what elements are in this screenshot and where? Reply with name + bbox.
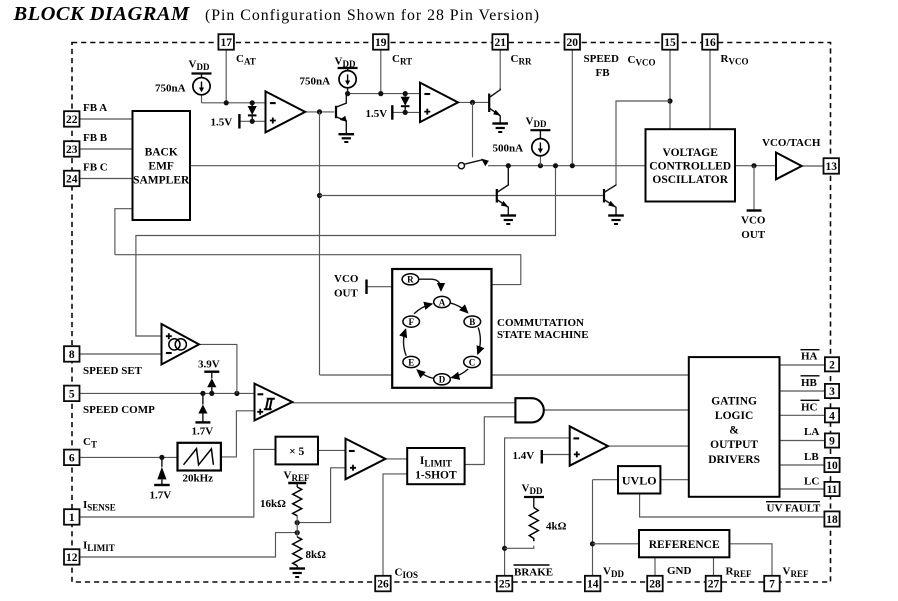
wire: gating logic to pin 9 LA [780,440,826,442]
wire: gating logic to pin 10 LB [780,464,826,466]
label COMMUTATION STATE MACHINE [497,317,589,341]
svg-text:FB B: FB B [83,132,108,144]
svg-text:28: 28 [649,579,661,591]
transistor Q1 emitter follower [336,94,347,133]
node: comparator 2 output junction [470,100,475,105]
node: Q3 collector junction on main line [506,163,511,168]
node: 3.9V clamp junction [209,391,214,396]
pin 28 [647,576,663,592]
svg-text:20kHz: 20kHz [183,473,214,485]
wire: pin 28 GND to reference [654,557,656,576]
pin 19 [373,34,389,50]
svg-text:OUTPUT: OUTPUT [710,439,758,451]
current source 750nA number 1 [155,78,210,95]
svg-text:FB: FB [596,67,611,79]
pin 10 [824,458,839,472]
IC boundary dashed border [72,43,831,583]
svg-text:18: 18 [826,514,838,526]
state A [434,296,451,307]
node: Q1 collector and 750nA junction [345,91,350,96]
transistor Q3 discharge [497,166,509,215]
wire: bus2 sampler to commutation state machine reset [115,255,521,285]
svg-text:14: 14 [587,579,599,591]
pin 9 [825,433,839,447]
wire: gating logic to pin 4 HC [780,414,826,416]
svg-text:C: C [469,357,476,367]
wire: limit comparator output to one-shot [385,458,407,460]
label BRAKE with overline [514,565,554,579]
VDD symbol for 750nA source 2 [335,56,358,71]
block: commutation state machine box [392,269,491,388]
3.9V clamp diode [198,359,220,394]
pin 17 [218,34,234,50]
pin 11 [824,482,839,496]
svg-text:16kΩ: 16kΩ [260,498,286,510]
VCO OUT terminal bar [747,209,762,211]
current source 500nA [493,139,550,156]
node: CAT junction [224,100,229,105]
label HB with overline [801,376,820,389]
svg-text:R: R [407,275,414,285]
pin 15 [662,34,678,50]
hysteresis comparator [255,384,293,421]
VDD symbol for 500nA source [526,116,551,139]
node: 500nA source junction on main line [538,163,543,168]
VREF symbol above divider [284,470,310,488]
node: CVCO junction [667,98,672,103]
label SPEED FB [584,53,620,79]
svg-text:LB: LB [804,451,819,463]
svg-text:22: 22 [66,114,78,126]
wire: VCO OUT stub [753,166,755,210]
wire: pin 17 to CAT node [225,50,227,103]
arrow B to C [478,328,481,354]
wire: CVCO node to discharge transistor Q4 collector [616,101,670,185]
wire: 1.4V source to brake comparator plus [543,454,570,456]
svg-text:19: 19 [375,37,387,49]
svg-text:HC: HC [801,401,818,413]
brake comparator [570,426,608,465]
wire: pin 8 SPEED SET to speed amp minus input [80,353,162,355]
svg-text:BLOCK DIAGRAM: BLOCK DIAGRAM [13,3,190,25]
block: 20kHz sawtooth oscillator [178,443,221,485]
arrow D to E [417,370,434,378]
svg-text:1.4V: 1.4V [513,450,535,462]
label VCO OUT at buffer [741,215,766,242]
svg-text:24: 24 [66,174,78,186]
block: BACK EMF SAMPLER [133,111,191,220]
svg-text:11: 11 [827,484,838,496]
svg-text:27: 27 [708,579,720,591]
wire: pin 22 FB A to sampler [80,118,133,120]
svg-text:D: D [439,375,446,385]
arrow A to B [450,303,468,313]
svg-text:7: 7 [769,579,775,591]
state C [464,356,481,367]
wire: pin 1 ISENSE to x5 amplifier [79,449,275,517]
svg-text:LOGIC: LOGIC [715,410,753,422]
wire: pin 14 VDD riser [592,480,594,576]
wire: main line after switch to VCO [488,165,646,167]
resistor 8k [293,537,326,568]
arrow E to F [404,330,407,356]
wire: UVLO to UV FAULT pin 18 [640,494,825,518]
wire: sampler output main line to switch [190,165,458,167]
svg-text:FB A: FB A [83,102,107,114]
svg-text:1.7V: 1.7V [150,490,172,502]
sample switch [458,159,489,169]
svg-text:FB C: FB C [83,162,108,174]
state D [434,374,451,385]
svg-text:1: 1 [69,512,75,524]
pin 6 [64,450,80,466]
svg-text:F: F [408,317,414,327]
wire: pin 27 RREF to reference [713,557,715,576]
speed amp OTA [162,324,200,365]
transistor Q4 discharge [604,185,616,215]
node: divider top tap junction [295,520,300,525]
wire: divider middle segment [296,515,298,537]
VDD symbol for 750nA source 1 [189,59,212,78]
svg-text:25: 25 [499,579,511,591]
pin 20 [565,34,581,50]
wire: VDD riser to reference block [593,543,640,545]
svg-text:STATE MACHINE: STATE MACHINE [497,329,589,341]
svg-text:GATING: GATING [711,396,757,408]
1.7V clamp diode at CT [150,457,172,501]
block: GATING LOGIC & OUTPUT DRIVERS [689,357,780,497]
svg-text:B: B [469,317,475,327]
node: VCO output junction [751,163,756,168]
svg-text:26: 26 [377,579,389,591]
pin 16 [702,34,718,50]
node: clamp diode 1 top junction [250,100,255,105]
pin 18 [824,511,839,526]
pin 1 [64,509,80,525]
wire: pin 26 CIOS to one-shot [383,474,407,576]
wire: gating logic to pin 2 HA [780,364,826,366]
wire: x5 amplifier to limit comparator minus [318,449,346,451]
svg-text:HB: HB [801,377,818,389]
wire: buffer output to pin 13 [802,165,824,167]
wire: 500nA source stem to main line [539,156,541,166]
svg-text:5: 5 [69,388,75,400]
AND gate [515,398,543,422]
node: comparator 1 output junction [317,109,322,114]
node: pin 20 junction on main line [570,163,575,168]
svg-text:(Pin Configuration Shown for 2: (Pin Configuration Shown for 28 Pin Vers… [205,7,540,24]
wire: pin 7 VREF to reference [729,544,772,576]
wire: comparator 1 output to follower Q1 base [305,111,334,113]
node: speed amp output junction [234,391,239,396]
svg-text:VCO: VCO [334,273,359,285]
transistor Q2 [489,89,501,123]
pin 5 [64,386,80,402]
node: clamp diode 1 bottom junction [250,119,255,124]
svg-text:12: 12 [66,552,78,564]
node: discharge base line junction [317,193,322,198]
1.5V source 2 [366,105,393,120]
wire: bus1 main line tap to speed amp plus input [136,166,556,336]
svg-text:LA: LA [804,426,819,438]
comparator U2 (CRT) [420,83,458,123]
svg-text:SPEED SET: SPEED SET [83,365,143,377]
svg-text:CONTROLLED: CONTROLLED [649,161,731,173]
wire: VDD riser to UVLO [593,479,619,481]
wire: comparator 2 output stub to sample switch [472,102,474,157]
buffer amp VCO/TACH [776,153,802,180]
pin 7 [764,576,780,592]
svg-text:3.9V: 3.9V [198,359,220,371]
1.4V source [513,450,542,464]
wire: CRT node line 750nA source 2 to comparator 2 minus [348,93,420,95]
wire: gating logic to pin 11 LC [780,488,826,490]
1.7V clamp diode at speed comp [192,393,214,437]
wire: pin 20 SPEED FB to main line [571,50,573,166]
svg-text:OSCILLATOR: OSCILLATOR [652,174,728,186]
block: REFERENCE [639,530,729,557]
svg-text:8: 8 [69,349,75,361]
wire: sampler bottom tap L to bus2 [115,209,133,255]
wire: commutation line to state machine and gating logic [320,374,393,376]
label HC with overline [801,400,820,413]
wire: brake comparator output to gating logic [608,445,689,447]
pin 25 [497,576,513,592]
ground for Q4 [608,216,624,225]
wire: VCO OUT input bar to state machine [367,286,393,288]
pin 22 [64,111,80,127]
svg-text:UV FAULT: UV FAULT [767,503,822,515]
wire: pin 25 BRAKE riser to brake comparator minus [505,438,570,576]
wire: pin 24 FB C to sampler [80,178,133,180]
svg-text:8kΩ: 8kΩ [306,549,327,561]
svg-text:SPEED COMP: SPEED COMP [83,404,155,416]
clamp diode D2 [401,94,410,113]
wire: 1.5V source 2 to comparator 2 plus input [393,111,420,113]
wire: comparator 2 output to Q2 base [458,101,489,103]
pin 2 [825,357,839,371]
wire: hysteresis comparator output to AND gate [292,402,515,404]
block: x5 amplifier [276,437,319,465]
svg-text:× 5: × 5 [289,446,304,458]
pin 14 [585,576,601,592]
state E [403,356,420,367]
svg-text:1.5V: 1.5V [366,108,388,120]
wire: speed amp output to speed comp line [199,344,237,393]
node: clamp diode 2 top junction [403,91,408,96]
ground for Q3 [501,216,517,225]
resistor 4k [529,508,566,542]
svg-text:EMF: EMF [148,161,174,173]
svg-text:500nA: 500nA [493,143,524,155]
svg-text:21: 21 [494,37,506,49]
node: brake pullup junction [502,546,507,551]
node: 1.7V clamp junction [200,391,205,396]
pin 13 [824,158,840,174]
pin 26 [375,576,391,592]
resistor 16k [260,487,302,516]
label VCO OUT at state machine [334,273,359,300]
svg-text:16: 16 [704,37,716,49]
svg-text:20: 20 [567,37,579,49]
svg-text:6: 6 [69,452,75,464]
VCO OUT input terminal bar [365,280,367,295]
wire: pin 5 SPEED COMP line to hysteresis comparator minus [80,392,255,394]
svg-text:23: 23 [66,144,78,156]
limit comparator [346,439,386,480]
1.5V source 1 [211,114,240,129]
wire: pin 19 to CRT node [380,50,382,94]
wire: pin 12 ILIMIT to divider tap [78,533,297,557]
ground for Q1 [339,134,355,142]
state F [403,316,420,327]
arrow F to A [414,304,432,314]
wire: 20kHz oscillator to hysteresis comparator plus [221,411,255,457]
svg-text:OUT: OUT [741,229,766,241]
svg-text:750nA: 750nA [155,83,186,95]
svg-text:4: 4 [829,410,835,422]
label UV FAULT with overline [766,502,821,515]
wire: pin 6 CT to oscillator [78,456,177,458]
arrow R to A [419,279,441,290]
svg-text:LC: LC [804,476,819,488]
svg-text:A: A [439,297,446,307]
wire: comparator 1 output vertical down to commutation line [319,112,321,375]
wire: one-shot output to AND gate [465,417,516,465]
pin 21 [492,34,508,50]
svg-text:1-SHOT: 1-SHOT [415,470,457,482]
pin 8 [64,346,80,362]
svg-text:VCO: VCO [741,215,766,227]
comparator U1 (CAT) [266,91,306,132]
svg-text:BRAKE: BRAKE [514,567,553,579]
svg-text:OUT: OUT [334,288,359,300]
node: clamp diode 2 bottom junction [403,110,408,115]
svg-text:17: 17 [220,37,232,49]
label HA with overline [801,350,820,363]
ground for Q2 [492,124,508,133]
svg-text:750nA: 750nA [300,76,331,88]
wire: 750nA source 1 to comparator 1 minus input [201,95,203,103]
svg-text:REFERENCE: REFERENCE [649,539,720,551]
svg-text:VCO/TACH: VCO/TACH [762,137,821,149]
svg-text:4kΩ: 4kΩ [546,521,567,533]
svg-text:1.5V: 1.5V [211,117,233,129]
wire: AND gate output to gating logic [544,409,689,411]
wire: divider tap to limit comparator plus [297,468,345,523]
wire: pin 23 FB B to sampler [80,148,133,150]
node: pin 19 junction [378,91,383,96]
svg-text:10: 10 [826,460,838,472]
wire: gating logic to pin 3 HB [780,390,826,392]
wire: 4k resistor to brake riser [505,546,534,549]
pin 23 [64,141,80,157]
wire: pin 21 to Q2 collector [499,50,501,89]
svg-text:13: 13 [826,161,838,173]
svg-text:SPEED: SPEED [584,53,620,65]
pin 12 [64,549,80,565]
clamp diode D1 [248,103,257,122]
node: divider bottom tap junction [295,530,300,535]
svg-text:HA: HA [801,351,818,363]
svg-text:3: 3 [829,386,835,398]
svg-text:15: 15 [664,37,676,49]
wire: discharge transistors base line [320,195,604,197]
svg-text:2: 2 [829,359,835,371]
svg-text:9: 9 [829,436,835,448]
current source 750nA number 2 [300,71,357,94]
block: VOLTAGE CONTROLLED OSCILLATOR [646,129,736,201]
svg-text:&: & [729,425,739,437]
svg-text:COMMUTATION: COMMUTATION [497,317,584,329]
svg-text:VOLTAGE: VOLTAGE [663,147,719,159]
node: CT clamp junction [159,455,164,460]
wire: pin 16 to VCO [709,50,711,130]
node: VDD riser junction at reference [590,541,595,546]
wire: 1.5V source 1 to comparator 1 plus input [240,120,265,122]
state R [402,274,419,285]
pin 27 [706,576,722,592]
svg-text:1.7V: 1.7V [192,426,214,438]
pin 3 [825,384,839,398]
svg-text:E: E [408,357,414,367]
wire: VCO output to buffer [735,165,776,167]
wire: UVLO to gating logic [660,479,688,481]
block: ILIMIT 1-SHOT [407,448,464,484]
pin 24 [64,171,80,187]
VDD symbol for 4k pullup [522,483,545,508]
svg-text:UVLO: UVLO [622,474,657,488]
node: bus1 junction on main line [553,163,558,168]
block: UVLO [618,466,660,493]
svg-text:SAMPLER: SAMPLER [133,175,190,187]
wire: pin 15 to VCO [669,50,671,130]
arrow C to D [452,369,469,378]
pin 4 [825,408,839,422]
ground for divider [289,569,305,578]
svg-text:GND: GND [667,565,692,577]
state B [464,316,481,327]
svg-text:DRIVERS: DRIVERS [708,454,760,466]
svg-text:BACK: BACK [145,147,178,159]
